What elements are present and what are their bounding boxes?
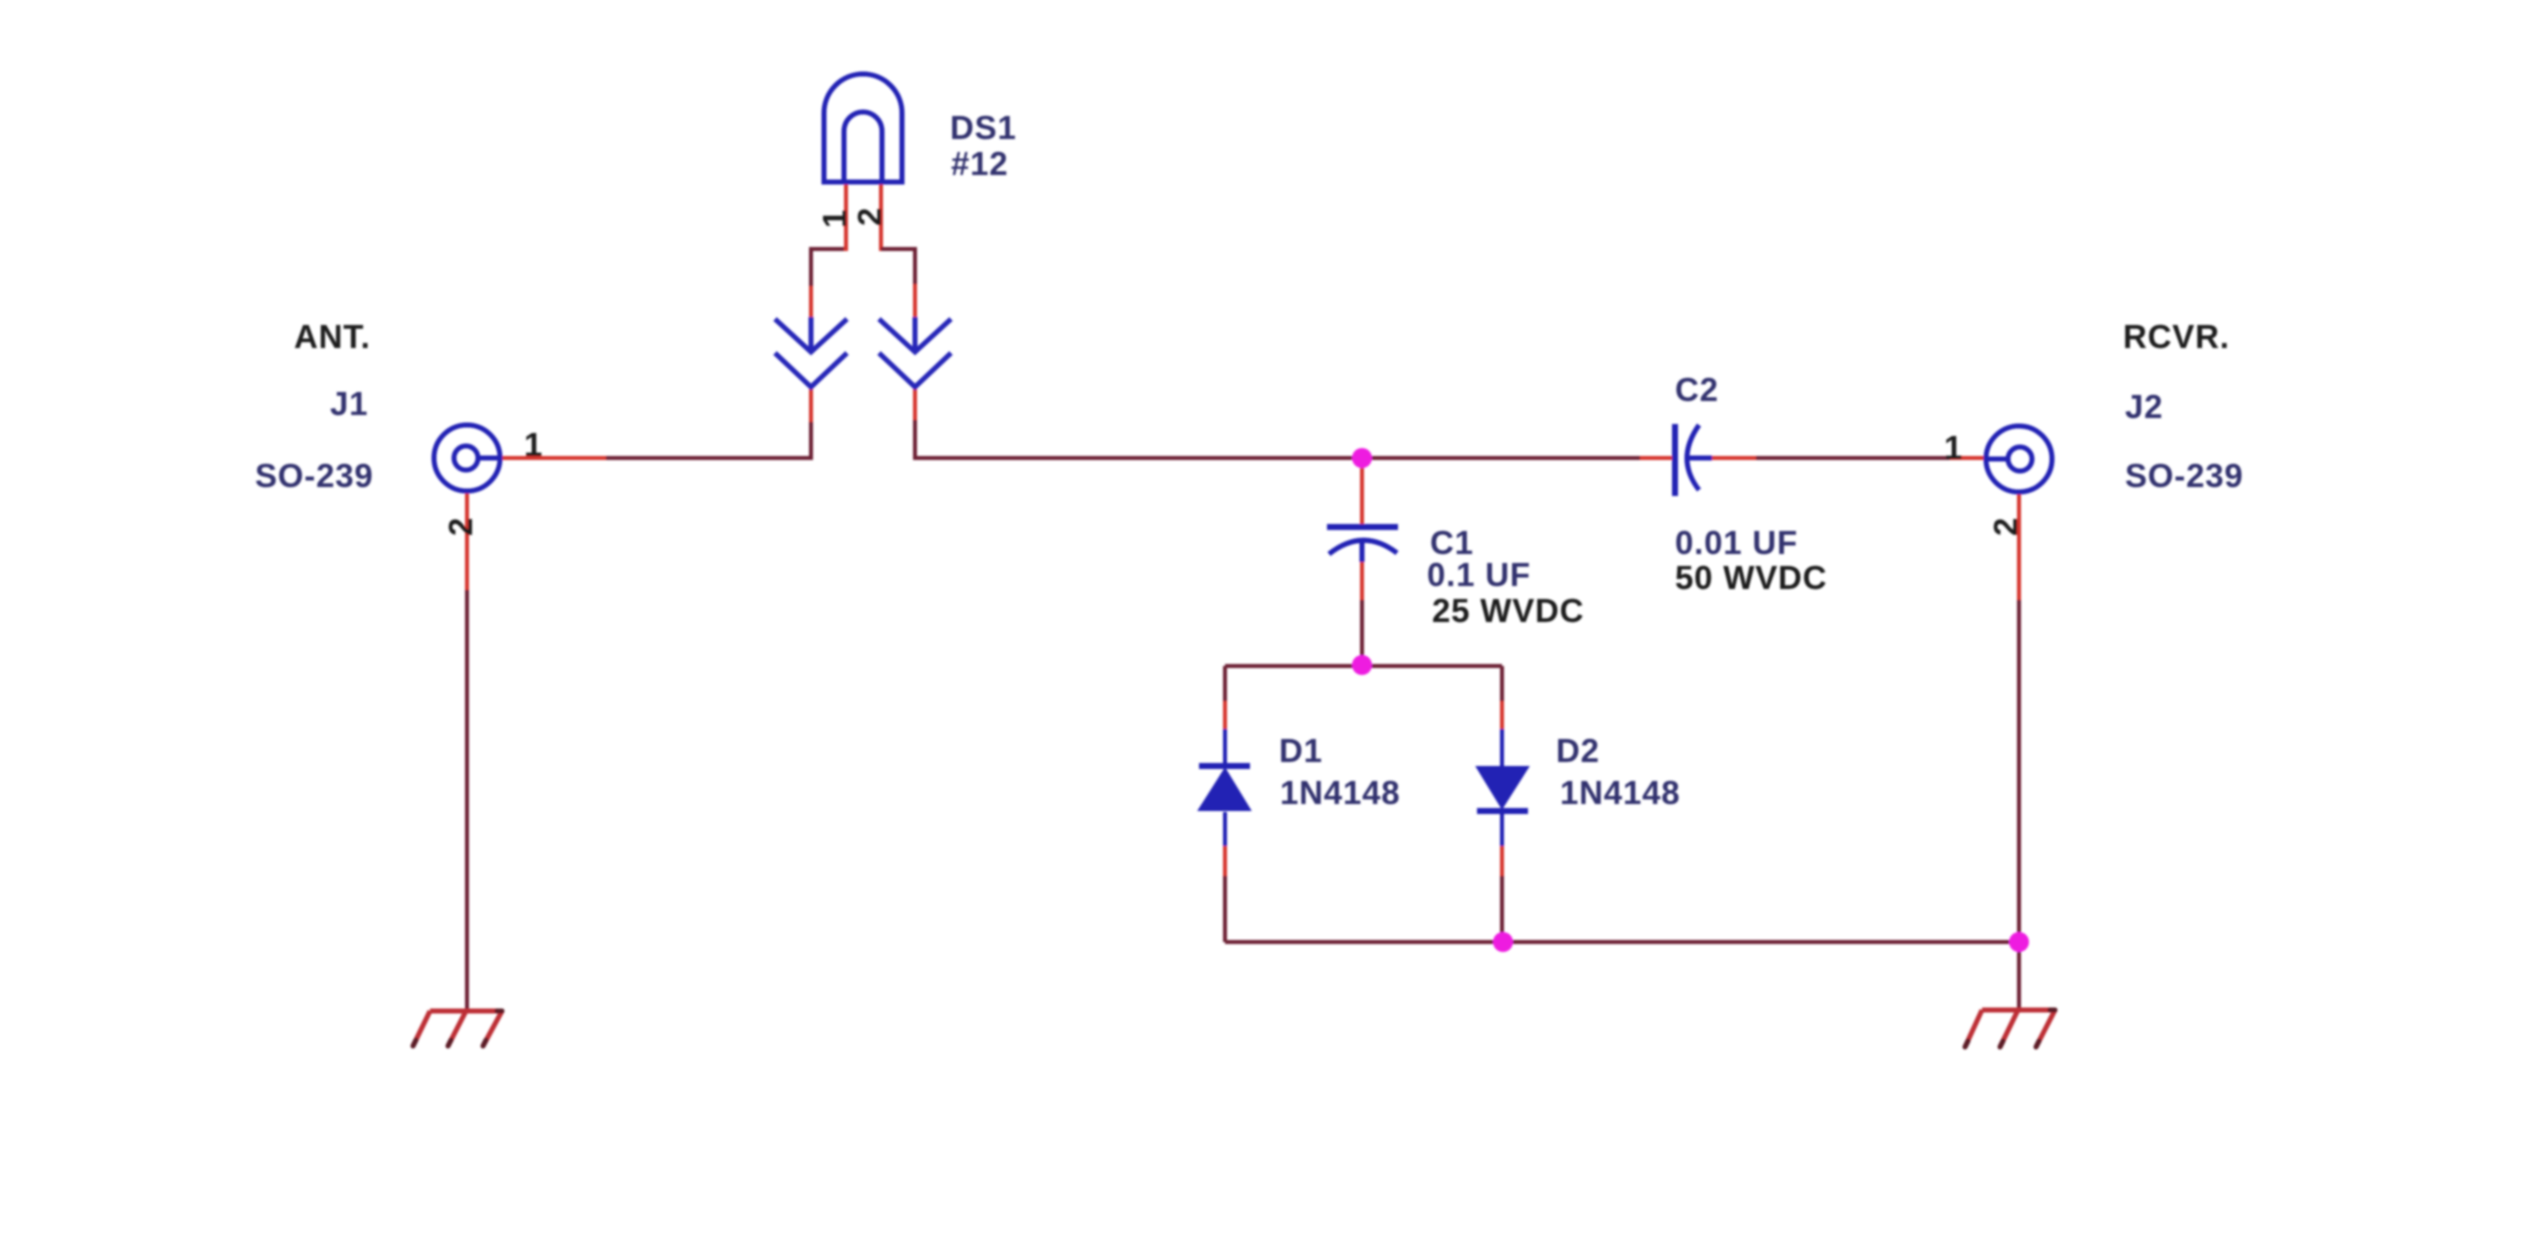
wire: J2 pin2 red segment bbox=[2017, 494, 2021, 602]
svg-text:2: 2 bbox=[442, 517, 479, 536]
svg-text:50 WVDC: 50 WVDC bbox=[1675, 559, 1827, 596]
svg-text:1: 1 bbox=[816, 209, 853, 228]
svg-text:1: 1 bbox=[1944, 429, 1963, 466]
wire: red segment at J2 pin1 bbox=[1950, 456, 1984, 460]
ground (left, chassis) bbox=[413, 1011, 502, 1046]
wire: D1 top red bbox=[1223, 701, 1227, 731]
wire: J1 pin1 to lamp left branch (net, red near pin) bbox=[502, 456, 608, 460]
wire: D2 bottom blue pin stub bbox=[1500, 809, 1504, 848]
wire: lamp right lead red bbox=[879, 182, 883, 251]
connector J1 (SO-239) bbox=[434, 425, 500, 491]
junction dot: bottom rail / D2 bbox=[1493, 932, 1513, 952]
svg-text:#12: #12 bbox=[951, 145, 1008, 182]
wire: right jog bbox=[881, 249, 915, 286]
svg-text:D2: D2 bbox=[1556, 732, 1600, 769]
connector J2 (SO-239) bbox=[1986, 426, 2052, 492]
svg-text:ANT.: ANT. bbox=[294, 318, 371, 355]
wire: D2 top blue pin stub bbox=[1500, 729, 1504, 768]
svg-text:1N4148: 1N4148 bbox=[1560, 774, 1680, 811]
svg-text:D1: D1 bbox=[1279, 732, 1323, 769]
capacitor C2 bbox=[1675, 424, 1712, 496]
diode D2 (1N4148, pointing down) bbox=[1477, 767, 1528, 811]
svg-text:J2: J2 bbox=[2125, 388, 2163, 425]
svg-text:1: 1 bbox=[524, 426, 543, 463]
wire: J1 pin2 down to ground bbox=[465, 590, 469, 1011]
wire: red stub into C2 left plate bbox=[1640, 456, 1674, 460]
junction dot: C1 / diode rail bbox=[1352, 655, 1372, 675]
svg-text:0.01 UF: 0.01 UF bbox=[1675, 524, 1798, 561]
wire: D1 bottom blue pin stub bbox=[1223, 812, 1227, 848]
wire: D2 bottom dark to bottom rail bbox=[1500, 876, 1504, 942]
svg-text:1N4148: 1N4148 bbox=[1280, 774, 1400, 811]
diode D1 (1N4148, pointing up) bbox=[1199, 766, 1250, 810]
wire: D1 top dark bbox=[1223, 666, 1227, 703]
svg-text:RCVR.: RCVR. bbox=[2123, 318, 2230, 355]
capacitor C1 bbox=[1327, 527, 1398, 562]
wire: D2 bottom red bbox=[1500, 846, 1504, 878]
svg-text:25 WVDC: 25 WVDC bbox=[1432, 592, 1584, 629]
svg-text:SO-239: SO-239 bbox=[255, 457, 374, 494]
wire: bus from C2 to J2 pin1 bbox=[1756, 456, 1952, 460]
wire: J2 pin2 down through junction to ground bbox=[2017, 600, 2021, 1010]
connector pair left (arrow into chevron) bbox=[775, 317, 847, 387]
wire: C1 bottom stub red bbox=[1360, 560, 1364, 602]
wire: D1 bottom red bbox=[1223, 846, 1227, 878]
svg-text:2: 2 bbox=[1987, 517, 2024, 536]
wire: lamp left lead red bbox=[844, 182, 848, 251]
wire: D2 top dark bbox=[1500, 666, 1504, 703]
wire: red segment below left connector chevron bbox=[809, 387, 813, 422]
svg-text:0.1 UF: 0.1 UF bbox=[1427, 556, 1531, 593]
svg-text:C2: C2 bbox=[1675, 371, 1719, 408]
wire bbox=[606, 420, 811, 458]
wire: J1 pin2 red segment bbox=[465, 493, 469, 592]
svg-text:2: 2 bbox=[851, 207, 888, 226]
wire: left branch up to jog bbox=[811, 249, 846, 286]
wire: C1 bottom stub dark to diode rail junction bbox=[1360, 600, 1364, 666]
wire: red segment above left connector arrow bbox=[809, 284, 813, 319]
svg-text:J1: J1 bbox=[330, 385, 368, 422]
ground (right, chassis) bbox=[1965, 1010, 2055, 1047]
wire: D1 bottom dark to bottom rail bbox=[1223, 876, 1227, 942]
junction dot: bottom rail / J2 ground bbox=[2009, 932, 2029, 952]
wire: D1 top blue pin stub bbox=[1223, 729, 1227, 764]
wire: diode top rail bbox=[1225, 664, 1502, 668]
wire: red segment below right connector chevron bbox=[913, 387, 917, 422]
junction dot: bus / C1 bbox=[1352, 448, 1372, 468]
wire: red stub out of C2 curved plate bbox=[1712, 456, 1758, 460]
lamp DS1 body bbox=[824, 74, 902, 182]
wire: C1 top stub red from bus junction bbox=[1360, 460, 1364, 524]
wire: D2 top red bbox=[1500, 701, 1504, 731]
wire: right branch down to bus, east to C1 junction bbox=[915, 420, 1362, 458]
wire: bus from C1 junction east toward C2 bbox=[1362, 456, 1642, 460]
svg-text:SO-239: SO-239 bbox=[2125, 457, 2244, 494]
connector pair right (arrow into chevron) bbox=[879, 317, 951, 387]
wire: red segment above right connector arrow bbox=[913, 284, 917, 319]
wire: bottom rail from D1 to J2 ground drop bbox=[1225, 940, 2019, 944]
svg-text:DS1: DS1 bbox=[950, 109, 1017, 146]
